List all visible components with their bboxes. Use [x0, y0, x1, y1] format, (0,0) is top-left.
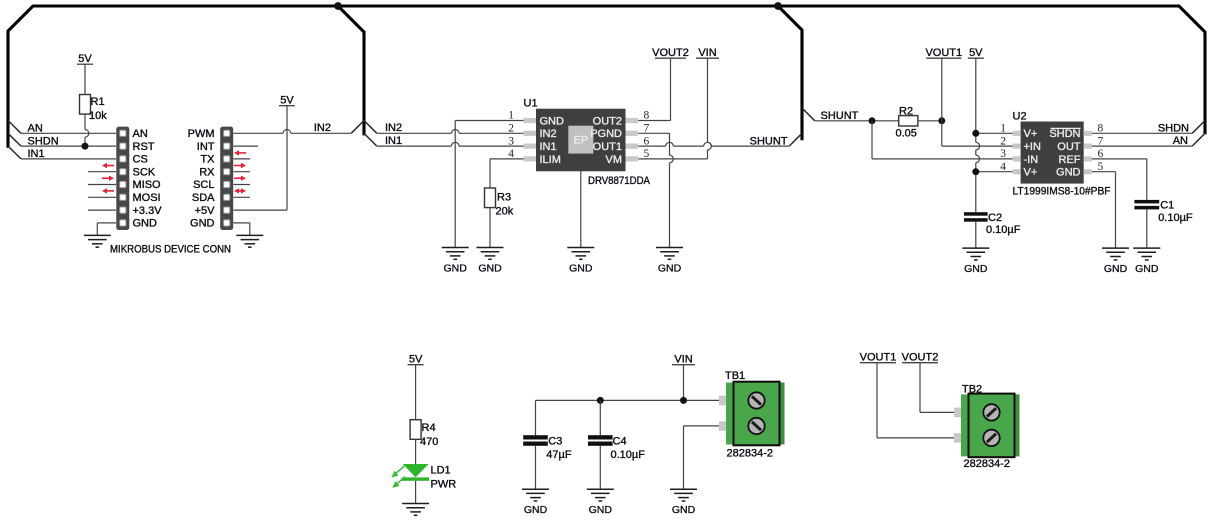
left header pin labels	[133, 128, 163, 230]
wire hop: IN1 over pin1 gnd wire	[451, 142, 459, 146]
capacitor C4	[588, 435, 613, 446]
wire VOUT1 to U2 +IN	[942, 58, 1013, 146]
wire 5V to U2 V+ and C2	[975, 58, 977, 212]
svg-text:PWR: PWR	[431, 479, 457, 491]
svg-text:TB2: TB2	[962, 384, 982, 396]
svg-text:GND: GND	[672, 504, 696, 516]
wire C1 to ground	[1146, 209, 1148, 248]
wire PWM to IN2 bus	[234, 132, 352, 134]
svg-text:4: 4	[508, 148, 514, 160]
bus main: top horizontal with left and right drops	[8, 6, 1205, 148]
ground (left header)	[84, 235, 111, 247]
bus entry SHUNT from OUT1	[789, 133, 802, 146]
wire hop: 5V over +IN	[976, 142, 980, 150]
svg-text:VIN: VIN	[698, 47, 716, 59]
bus branch to SHUNT	[778, 6, 802, 140]
svg-text:C1: C1	[1160, 200, 1174, 212]
wire R1 to SHDN	[84, 114, 86, 146]
bus entry AN (left)	[8, 121, 21, 134]
wire U1 pin 1 GND to ground	[455, 121, 523, 248]
svg-text:TB1: TB1	[725, 370, 745, 382]
svg-text:1: 1	[508, 110, 514, 122]
svg-text:3: 3	[508, 135, 514, 147]
svg-text:+3.3V: +3.3V	[133, 205, 163, 217]
arrow SDA direction (red)	[234, 188, 246, 193]
svg-text:C4: C4	[613, 435, 627, 447]
wire C2 to ground	[975, 222, 977, 248]
wire GND pin to ground (right header)	[234, 223, 250, 235]
ground (C1)	[1133, 248, 1160, 260]
ground (C4)	[587, 489, 614, 501]
svg-text:GND: GND	[1104, 263, 1128, 275]
svg-text:IN1: IN1	[385, 135, 402, 147]
svg-text:VOUT1: VOUT1	[860, 352, 897, 364]
svg-text:V+: V+	[1024, 128, 1038, 140]
svg-text:R1: R1	[91, 96, 105, 108]
wire IN1 to header pin CS	[21, 158, 116, 160]
svg-text:DRV8871DDA: DRV8871DDA	[588, 175, 651, 187]
wire AN to header pin AN	[21, 132, 116, 134]
junction rail/C4	[597, 397, 604, 404]
wire GND pin to ground (left header)	[97, 223, 116, 235]
svg-text:INT: INT	[197, 141, 215, 153]
svg-text:10k: 10k	[89, 110, 107, 122]
svg-text:GND: GND	[1135, 263, 1159, 275]
arrow SCL direction (red)	[234, 176, 246, 181]
svg-text:5V: 5V	[969, 47, 983, 59]
wire IN2 to U1 pin 2	[377, 132, 524, 134]
wire hop: IN2 over pin1 gnd wire	[451, 130, 459, 134]
svg-text:CS: CS	[133, 154, 148, 166]
op-amp U1 DRV8871DDA body	[524, 109, 639, 172]
wire U1 ILIM to R3	[490, 159, 524, 188]
ground (U1 EP)	[567, 248, 594, 260]
svg-text:V+: V+	[1024, 167, 1038, 179]
junction 5V/pin4	[972, 168, 979, 175]
capacitor C2	[964, 212, 988, 222]
svg-text:SCK: SCK	[133, 166, 156, 178]
svg-text:MOSI: MOSI	[133, 192, 161, 204]
bus exit SHUNT to R2	[802, 108, 815, 121]
svg-text:SHDN: SHDN	[1158, 122, 1189, 134]
terminal block TB1	[719, 382, 785, 446]
svg-text:GND: GND	[540, 115, 565, 127]
U2 pin numbers	[1000, 123, 1103, 173]
resistor R3	[485, 188, 496, 208]
svg-text:VM: VM	[606, 154, 623, 166]
svg-text:2: 2	[1000, 135, 1006, 147]
svg-text:OUT: OUT	[1057, 141, 1081, 153]
svg-text:2: 2	[508, 123, 514, 135]
wire hop: PWM wire over 5V	[283, 130, 291, 134]
svg-text:20k: 20k	[496, 206, 514, 218]
svg-text:GND: GND	[569, 263, 593, 275]
svg-text:SHDN: SHDN	[1049, 128, 1080, 140]
svg-text:SHUNT: SHUNT	[821, 110, 859, 122]
bus exit SHDN (right)	[1192, 121, 1205, 134]
wire 5V to U2 pin 1	[976, 132, 1013, 134]
svg-text:SCL: SCL	[193, 179, 214, 191]
svg-text:-IN: -IN	[1024, 154, 1039, 166]
wire 5V to R1	[84, 64, 86, 94]
svg-text:PGND: PGND	[590, 128, 622, 140]
svg-text:RST: RST	[133, 141, 155, 153]
svg-text:GND: GND	[524, 504, 548, 516]
svg-text:1: 1	[1000, 123, 1006, 135]
svg-text:6: 6	[1098, 148, 1104, 160]
wire stub TX	[234, 158, 251, 160]
svg-text:5V: 5V	[280, 95, 294, 107]
svg-text:282834-2: 282834-2	[727, 448, 774, 460]
LED LD1 (green)	[402, 464, 430, 481]
wire stub SCL	[234, 184, 251, 186]
capacitor C3	[523, 435, 548, 446]
svg-text:IN2: IN2	[314, 122, 331, 134]
bus branch to IN2/IN1	[338, 6, 364, 135]
wire VOUT2 to TB2 pin 1	[920, 363, 954, 413]
wire VOUT1 to TB2 pin 2	[877, 363, 954, 438]
wire U2 OUT to AN bus	[1092, 145, 1193, 147]
wire hop: PGND over VM	[670, 155, 674, 163]
svg-text:6: 6	[644, 135, 650, 147]
wire rail to C4	[599, 400, 601, 435]
wire U2 SHDN to bus	[1092, 132, 1193, 134]
wire U1 OUT1 to SHUNT bus	[638, 145, 789, 147]
wire stub SCK	[88, 171, 116, 173]
svg-text:SDA: SDA	[192, 192, 215, 204]
wire U1 PGND to ground	[638, 133, 669, 247]
junction 5V/pin1	[972, 130, 979, 137]
svg-text:U2: U2	[1013, 111, 1027, 123]
wire U2 GND pin to ground	[1092, 172, 1116, 248]
arrow MOSI direction (red)	[102, 188, 114, 193]
wire VIN rail to TB1 pin 1	[536, 399, 720, 401]
svg-text:LT1999IMS8-10#PBF: LT1999IMS8-10#PBF	[1013, 186, 1111, 198]
svg-text:MIKROBUS DEVICE CONN: MIKROBUS DEVICE CONN	[110, 244, 231, 256]
svg-text:7: 7	[644, 123, 650, 135]
U1 pin numbers	[508, 110, 649, 160]
U2 pin names	[1024, 128, 1081, 178]
svg-text:EP: EP	[573, 135, 588, 147]
wire stub +3.3V	[88, 209, 116, 211]
wire R2 to VOUT1 node	[918, 120, 942, 122]
svg-text:5: 5	[1098, 161, 1104, 173]
svg-text:VOUT2: VOUT2	[652, 47, 689, 59]
wire R3 to ground	[489, 208, 491, 248]
svg-text:8: 8	[644, 110, 650, 122]
svg-text:+5V: +5V	[195, 205, 216, 217]
svg-text:GND: GND	[444, 263, 468, 275]
wire stub MOSI	[88, 196, 116, 198]
wire VIN to rail	[683, 365, 685, 401]
wire TB1 pin 2 to ground	[684, 426, 720, 489]
connector left header (mikroBUS)	[116, 127, 129, 230]
junction rail/VIN	[680, 397, 687, 404]
bus entry IN1 (left)	[8, 146, 21, 159]
svg-text:REF: REF	[1059, 154, 1081, 166]
wire stub SDA	[234, 196, 251, 198]
resistor R4	[410, 420, 421, 440]
svg-text:GND: GND	[964, 263, 988, 275]
svg-text:C3: C3	[548, 435, 562, 447]
connector right header (mikroBUS)	[220, 127, 233, 230]
arrow RX direction (red)	[234, 163, 246, 168]
svg-text:AN: AN	[1173, 135, 1188, 147]
wire SHUNT to R2	[815, 120, 899, 122]
wire VIN to U1 VM	[638, 58, 707, 159]
svg-text:GND: GND	[133, 218, 158, 230]
svg-text:GND: GND	[190, 218, 215, 230]
svg-text:VIN: VIN	[674, 354, 692, 366]
svg-text:OUT2: OUT2	[593, 115, 622, 127]
svg-text:3: 3	[1000, 148, 1006, 160]
svg-text:GND: GND	[1056, 167, 1081, 179]
right header pin labels	[188, 128, 216, 230]
svg-text:ILIM: ILIM	[540, 154, 561, 166]
ground (right header)	[236, 235, 263, 247]
svg-text:R3: R3	[497, 192, 511, 204]
LD1 emission arrows (green)	[391, 466, 405, 488]
svg-text:IN2: IN2	[385, 122, 402, 134]
wire stub MISO	[88, 184, 116, 186]
ground (U2 pin5)	[1102, 248, 1129, 260]
ground (R3)	[477, 248, 504, 260]
svg-text:VOUT2: VOUT2	[902, 352, 939, 364]
bus exit AN (right)	[1192, 133, 1205, 146]
svg-text:R4: R4	[422, 422, 436, 434]
svg-text:U1: U1	[524, 98, 538, 110]
wire hop: R1 wire over AN	[85, 130, 89, 138]
svg-text:282834-2: 282834-2	[964, 458, 1011, 470]
svg-text:GND: GND	[589, 504, 613, 516]
bus junction dot (IN2/IN1 branch)	[334, 2, 342, 10]
wire stub INT	[234, 145, 259, 147]
svg-text:470: 470	[420, 436, 438, 448]
bus entry IN2 from PWM	[351, 121, 364, 134]
bus junction dot (SHUNT branch)	[774, 2, 782, 10]
arrow TX direction (red)	[234, 150, 246, 155]
svg-text:RX: RX	[199, 166, 215, 178]
arrow MISO direction (red)	[102, 176, 114, 181]
wire C4 to ground	[599, 446, 601, 489]
junction SHDN/R1	[82, 143, 89, 150]
bus exit IN1 to U1	[364, 133, 377, 146]
svg-text:7: 7	[1098, 135, 1104, 147]
svg-text:TX: TX	[200, 154, 215, 166]
resistor R2	[899, 116, 918, 126]
svg-text:OUT1: OUT1	[593, 141, 622, 153]
wire hop: OUT1 over PGND	[666, 142, 674, 146]
svg-text:+IN: +IN	[1024, 141, 1041, 153]
wire stub RX	[234, 171, 251, 173]
ground (TB1)	[670, 489, 697, 501]
svg-text:IN2: IN2	[540, 128, 557, 140]
capacitor C1	[1134, 200, 1159, 210]
terminal block TB2	[954, 394, 1020, 458]
arrow SCK direction (red)	[102, 163, 114, 168]
wire SHUNT to U2 -IN	[872, 121, 1013, 159]
svg-text:PWM: PWM	[188, 128, 215, 140]
resistor R1	[80, 95, 91, 115]
wire rail to C3	[535, 400, 537, 435]
svg-text:5V: 5V	[409, 354, 423, 366]
svg-text:LD1: LD1	[431, 465, 451, 477]
wire 5V to U2 pin 4	[976, 171, 1013, 173]
svg-text:VOUT1: VOUT1	[925, 47, 962, 59]
svg-text:5: 5	[644, 148, 650, 160]
junction R2/VOUT1	[938, 117, 945, 124]
svg-text:R2: R2	[899, 105, 913, 117]
wire SHDN to header pin RST	[21, 145, 116, 147]
wire 5V to +5V pin	[234, 106, 288, 210]
svg-text:0.05: 0.05	[896, 128, 917, 140]
svg-text:GND: GND	[658, 263, 682, 275]
wire hop: 5V over -IN	[976, 155, 980, 163]
bus entry SHDN (left)	[8, 133, 21, 146]
wire LD1 to ground	[415, 481, 417, 504]
wire 5V to R4	[415, 365, 417, 420]
ground (LD1)	[402, 504, 429, 516]
svg-text:AN: AN	[133, 128, 148, 140]
svg-text:5V: 5V	[78, 53, 92, 65]
svg-text:4: 4	[1000, 161, 1006, 173]
svg-text:IN1: IN1	[540, 141, 557, 153]
ground (C2)	[962, 248, 989, 260]
svg-text:MISO: MISO	[133, 179, 162, 191]
U1 pin names	[540, 115, 623, 165]
ground (C3)	[522, 489, 549, 501]
wire hop: OUT1 over VIN	[704, 142, 712, 146]
wire IN1 to U1 pin 3	[377, 145, 524, 147]
junction SHUNT/-IN	[869, 117, 876, 124]
wire hop: VIN over OUT1	[708, 142, 712, 150]
wire R4 to LD1	[415, 439, 417, 464]
bus exit IN2 to U1	[364, 121, 377, 134]
svg-text:8: 8	[1098, 123, 1104, 135]
wire U1 OUT2 to VOUT2	[638, 58, 670, 120]
svg-text:47µF: 47µF	[546, 449, 572, 461]
svg-text:0.10µF: 0.10µF	[986, 224, 1021, 236]
svg-text:C2: C2	[988, 212, 1002, 224]
svg-text:GND: GND	[478, 263, 502, 275]
op-amp U2 LT1999 body	[1013, 122, 1092, 184]
wire U1 EP to ground	[580, 154, 582, 248]
svg-text:0.10µF: 0.10µF	[611, 449, 646, 461]
ground (U1 pin1)	[442, 248, 469, 260]
wire U2 REF to C1	[1092, 159, 1147, 200]
ground (U1 PGND)	[656, 248, 683, 260]
svg-text:0.10µF: 0.10µF	[1158, 212, 1193, 224]
wire C3 to ground	[535, 446, 537, 489]
